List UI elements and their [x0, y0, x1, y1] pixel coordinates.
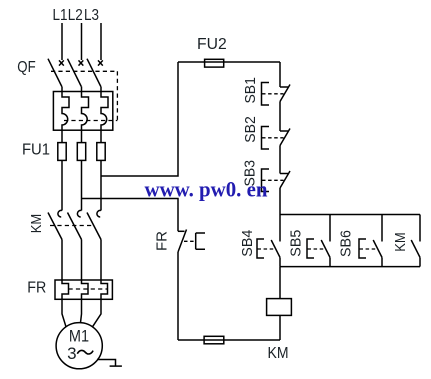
svg-text:QF: QF — [17, 59, 36, 76]
breaker QF pole 3 — [87, 59, 103, 92]
thermal relay FR heater 3 — [101, 280, 108, 299]
contactor KM auxiliary contact (NO) — [411, 215, 420, 267]
wire FU1-2 to KM (tap junction at y 198.5) — [81, 161, 83, 211]
ground — [97, 360, 122, 367]
svg-text:KM: KM — [392, 232, 409, 252]
button SB4 (NO) — [257, 215, 280, 267]
svg-text:3: 3 — [67, 344, 76, 363]
wire L3 drop — [100, 23, 102, 60]
thermal relay FR heater 1 — [62, 280, 69, 299]
svg-text:L2: L2 — [68, 7, 83, 24]
svg-text:SB5: SB5 — [288, 230, 305, 257]
wire FR1 to motor — [62, 299, 66, 327]
wire FR3 to motor — [93, 299, 102, 327]
wire SB1 to SB2 — [279, 102, 281, 132]
wire FR contact to bottom — [177, 252, 179, 340]
wire top to SB1 — [279, 62, 281, 87]
wire tap L2 to FR contact — [82, 199, 179, 232]
svg-text:FU1: FU1 — [22, 142, 50, 159]
breaker QF thermal+magnetic release 3 — [101, 92, 108, 131]
wire control top — [178, 61, 280, 63]
fuse FU2b — [204, 336, 224, 344]
thermal relay FR linkage — [69, 288, 108, 290]
wire L1 drop — [61, 23, 63, 60]
svg-text:www. pw0. en: www. pw0. en — [145, 177, 268, 202]
svg-text:FR: FR — [27, 280, 46, 297]
breaker QF release box — [53, 92, 112, 131]
wire FU1-1 to KM — [61, 161, 63, 211]
svg-text:KM: KM — [268, 345, 289, 362]
svg-text:SB1: SB1 — [242, 77, 259, 104]
breaker QF pole 2 — [68, 59, 84, 92]
wire L2 drop — [81, 23, 83, 60]
breaker QF pole 1 — [48, 59, 64, 92]
wire control bottom — [178, 339, 280, 341]
breaker QF thermal+magnetic release 2 — [82, 92, 89, 131]
wire KM1 to FR — [61, 240, 63, 281]
wire FU1-3 to KM (tap junction at y 176) — [100, 161, 102, 211]
wire SB2 to SB3 — [279, 146, 281, 174]
button SB5 (NO) — [307, 215, 330, 267]
svg-text:SB4: SB4 — [239, 230, 256, 257]
wire KM3 to FR — [100, 240, 102, 281]
svg-text:KM: KM — [28, 214, 45, 234]
thermal relay FR contact (NC) — [178, 230, 205, 253]
wire parallel block top — [280, 214, 420, 216]
wire block to coil — [279, 267, 281, 298]
svg-text:L3: L3 — [84, 7, 99, 24]
breaker QF trip linkage — [51, 71, 117, 120]
wire parallel block bottom — [280, 266, 420, 268]
button SB6 (NO) — [359, 215, 382, 267]
wire pole3 to FU1 — [100, 130, 102, 142]
svg-text:SB2: SB2 — [242, 116, 259, 143]
wire KM2 to FR — [81, 240, 83, 281]
fuse FU1-3 — [97, 143, 105, 161]
breaker QF thermal+magnetic release 1 — [62, 92, 69, 131]
wire pole2 to FU1 — [81, 130, 83, 142]
fuse FU2 — [205, 59, 224, 67]
wire coil to bottom — [279, 316, 281, 340]
svg-text:FU2: FU2 — [197, 36, 227, 53]
button SB2 (NC) — [262, 127, 291, 150]
motor M1 — [56, 323, 102, 369]
wire tap L3 to control left leg — [101, 62, 178, 176]
contactor KM main contact 1 — [48, 210, 62, 239]
breaker QF trip bar — [64, 120, 117, 122]
fuse FU1-1 — [58, 143, 66, 161]
wire pole1 to FU1 — [61, 130, 63, 142]
svg-text:FR: FR — [154, 231, 171, 251]
contactor KM main contact 2 — [68, 210, 82, 239]
wire SB3 to parallel block — [279, 188, 281, 215]
coil KM — [267, 299, 292, 316]
svg-text:SB6: SB6 — [338, 230, 355, 257]
svg-text:M1: M1 — [69, 327, 89, 346]
contactor KM linkage — [50, 225, 94, 227]
contactor KM main contact 3 — [87, 210, 101, 239]
button SB1 (NC) — [262, 83, 291, 106]
thermal relay FR heater 2 — [82, 280, 89, 299]
wire FR2 to motor — [81, 299, 82, 322]
thermal relay FR box — [55, 280, 112, 299]
button SB3 (NC) — [262, 169, 291, 192]
svg-text:L1: L1 — [53, 7, 68, 24]
fuse FU1-2 — [77, 143, 85, 161]
